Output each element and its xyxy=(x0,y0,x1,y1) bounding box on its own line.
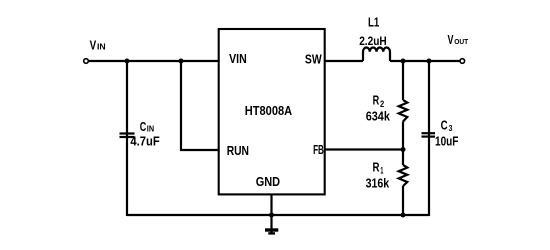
svg-text:HT8008A: HT8008A xyxy=(245,103,293,118)
svg-text:1: 1 xyxy=(380,165,383,175)
junction node out-R2 xyxy=(401,59,406,64)
op-amp U1 HT8008A body xyxy=(219,29,325,194)
junction node out-C3 xyxy=(427,59,432,64)
svg-text:SW: SW xyxy=(305,52,322,67)
svg-text:IN: IN xyxy=(147,123,154,133)
svg-text:2: 2 xyxy=(380,99,384,109)
svg-text:VIN: VIN xyxy=(229,51,247,66)
wire GND pin stem xyxy=(270,194,272,233)
svg-text:OUT: OUT xyxy=(454,37,468,46)
svg-text:316k: 316k xyxy=(366,177,390,191)
wire output rail xyxy=(390,60,460,62)
svg-text:GND: GND xyxy=(256,174,280,189)
wire RUN branch vertical xyxy=(180,61,182,151)
svg-text:R: R xyxy=(373,93,380,107)
junction node R1-bottom xyxy=(401,213,406,218)
wire FB feedback xyxy=(325,148,404,150)
wire SW output xyxy=(325,60,364,62)
svg-text:3: 3 xyxy=(449,124,453,133)
wire CIN branch vertical xyxy=(126,61,128,216)
svg-text:C: C xyxy=(441,119,448,133)
wire R divider bottom segment xyxy=(402,186,404,216)
wire R divider top segment xyxy=(402,61,404,100)
svg-text:R: R xyxy=(373,161,380,175)
terminal VOUT xyxy=(460,59,465,64)
junction node input-RUN xyxy=(179,59,184,64)
svg-text:10uF: 10uF xyxy=(435,135,459,149)
svg-text:634k: 634k xyxy=(366,110,390,124)
junction node input-CIN xyxy=(125,59,130,64)
capacitor C3 plates xyxy=(422,133,436,136)
svg-text:FB: FB xyxy=(313,142,324,157)
svg-text:V: V xyxy=(90,38,97,52)
svg-text:L1: L1 xyxy=(368,14,379,29)
wire RUN branch horizontal xyxy=(180,149,219,151)
capacitor CIN plates xyxy=(120,134,135,138)
junction node GND-rail xyxy=(269,213,274,218)
wire bottom ground rail xyxy=(127,214,429,216)
svg-text:IN: IN xyxy=(97,43,106,52)
svg-text:V: V xyxy=(448,33,454,47)
junction node FB-divider xyxy=(401,147,406,152)
wire top input rail xyxy=(88,60,219,62)
terminal VIN xyxy=(84,59,89,64)
svg-text:4.7uF: 4.7uF xyxy=(130,134,160,148)
svg-text:2.2uH: 2.2uH xyxy=(359,36,387,48)
resistor R2 zigzag xyxy=(399,100,408,122)
resistor R1 zigzag xyxy=(399,165,408,186)
svg-text:C: C xyxy=(140,120,147,134)
svg-text:RUN: RUN xyxy=(227,143,249,158)
ground symbol xyxy=(265,230,278,233)
inductor L1 symbol xyxy=(363,48,390,62)
wire R divider middle segment xyxy=(402,122,404,166)
wire C3 branch vertical xyxy=(428,61,430,216)
